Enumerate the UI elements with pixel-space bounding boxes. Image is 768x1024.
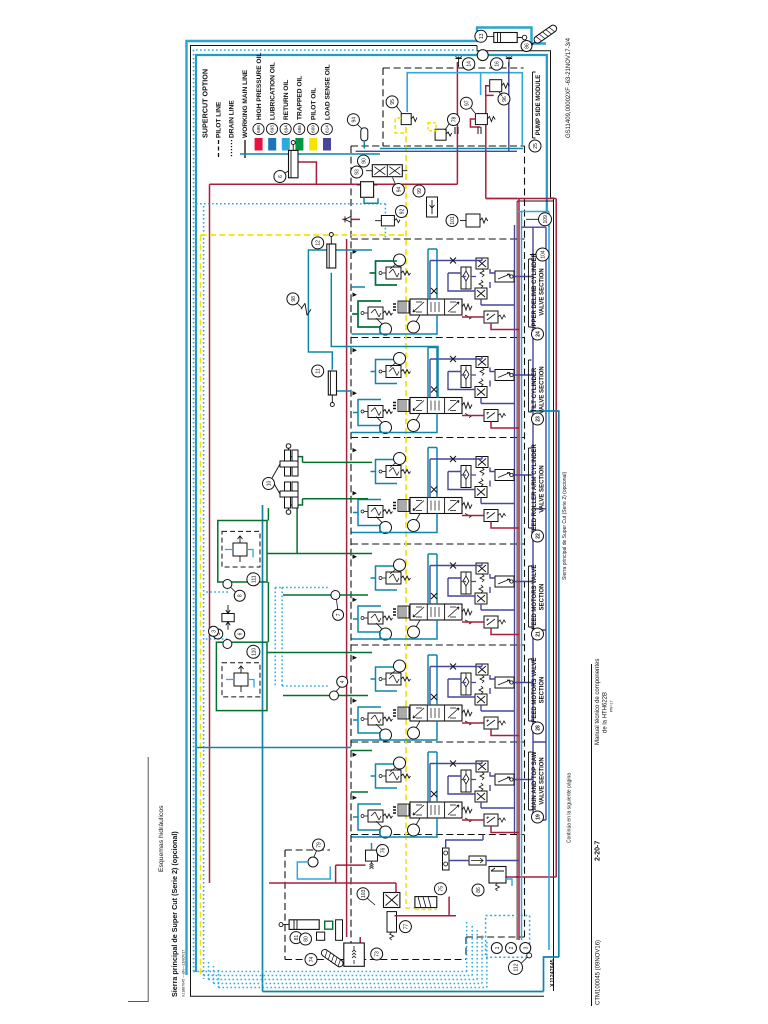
svg-text:86: 86 <box>525 43 531 49</box>
red cluster wiring <box>269 865 500 943</box>
svg-text:DRAIN LINE: DRAIN LINE <box>229 100 236 138</box>
svg-text:77: 77 <box>403 924 409 930</box>
svg-text:104: 104 <box>541 250 547 259</box>
svg-text:96: 96 <box>502 96 508 102</box>
svg-text:92: 92 <box>400 209 406 215</box>
svg-text:CTM100045 (09NOV16): CTM100045 (09NOV16) <box>596 940 602 1005</box>
cyan dotted pair mid-left <box>204 588 330 687</box>
svg-text:2-20-7: 2-20-7 <box>595 841 602 861</box>
svg-text:80: 80 <box>304 936 310 942</box>
navy label frame <box>522 227 547 820</box>
svg-text:VALVE SECTION: VALVE SECTION <box>540 366 546 413</box>
svg-text:XJ1247645: XJ1247645 <box>550 959 556 987</box>
junction circle <box>477 50 488 61</box>
saw bar diagonal <box>528 24 558 48</box>
svg-text:PILOT OIL: PILOT OIL <box>311 88 318 120</box>
bank left red vertical <box>346 239 348 937</box>
svg-text:SECTION: SECTION <box>540 584 546 611</box>
svg-text:3: 3 <box>212 630 218 633</box>
svg-text:103: 103 <box>361 889 367 898</box>
svg-text:11: 11 <box>316 368 322 373</box>
saw bar bottom <box>320 948 344 968</box>
svg-text:PUMP SIDE MODULE: PUMP SIDE MODULE <box>536 75 542 136</box>
yellow dashed horizontal + long vertical <box>201 234 407 236</box>
svg-text:7: 7 <box>336 613 342 616</box>
svg-text:VALVE SECTION: VALVE SECTION <box>540 465 546 512</box>
cylinder 12 <box>327 244 336 268</box>
valve 97 <box>475 114 487 125</box>
svg-text:76: 76 <box>381 848 387 854</box>
svg-text:86: 86 <box>476 887 482 893</box>
node circles on green lines <box>331 591 340 600</box>
cyan dotted horizontal upper <box>196 204 385 239</box>
svg-text:95: 95 <box>390 99 396 105</box>
section S6 main and top saw <box>352 752 534 838</box>
green entries S3-S6 and sub-box links <box>267 457 372 792</box>
svg-text:6: 6 <box>238 632 244 635</box>
section S3 feed roller arm cylinder <box>352 448 534 534</box>
svg-text:2: 2 <box>509 946 515 949</box>
svg-text:PILOT LINE: PILOT LINE <box>216 101 223 138</box>
accumulator 94 <box>361 128 368 141</box>
cylinder 6 (below legend) <box>240 153 380 155</box>
sub-box 110 <box>216 642 267 710</box>
svg-text:110: 110 <box>251 648 257 656</box>
legend circles <box>253 123 333 134</box>
svg-text:FEED ROLLER ARM CYLINDER: FEED ROLLER ARM CYLINDER <box>532 443 538 533</box>
node 8 + cyan loop <box>308 857 318 867</box>
outer black frame <box>191 46 545 997</box>
svg-text:de la HTH622B: de la HTH622B <box>603 692 609 733</box>
svg-text:74: 74 <box>309 957 315 963</box>
svg-text:TILT CYLINDER: TILT CYLINDER <box>532 367 538 412</box>
svg-text:19: 19 <box>536 814 542 820</box>
svg-text:12: 12 <box>316 240 322 246</box>
bottom dotted band <box>194 920 487 988</box>
svg-text:101: 101 <box>450 216 456 225</box>
svg-text:SECTION: SECTION <box>540 677 546 704</box>
svg-text:94: 94 <box>351 117 357 123</box>
S1 green overlays <box>352 261 397 327</box>
svg-text:8: 8 <box>238 594 244 597</box>
X valve 77 <box>384 893 400 908</box>
svg-text:PN=17: PN=17 <box>610 700 614 712</box>
module cyan loop <box>407 73 522 146</box>
svg-text:Sierra principal de Super Cut: Sierra principal de Super Cut (Serie 2) … <box>170 831 179 997</box>
svg-text:93: 93 <box>355 169 361 175</box>
svg-text:14: 14 <box>467 61 473 67</box>
navy flow box + valve <box>443 848 450 870</box>
svg-text:LUBRICATION OIL: LUBRICATION OIL <box>270 62 277 120</box>
svg-text:112: 112 <box>514 963 520 971</box>
valve bank top/bottom and separators <box>351 239 525 835</box>
svg-text:XJ1887045 —UN—21NOV17: XJ1887045 —UN—21NOV17 <box>182 950 186 997</box>
orifice block <box>222 614 234 622</box>
legend line samples <box>218 140 220 158</box>
section S1 upper delimb cylinder <box>352 249 534 335</box>
svg-text:98: 98 <box>291 296 297 302</box>
left vertical bus <box>203 206 205 979</box>
inner cyan border <box>196 55 547 972</box>
motor 75 <box>415 897 437 908</box>
svg-text:HIGH PRESSURE OIL: HIGH PRESSURE OIL <box>256 53 263 120</box>
svg-text:24: 24 <box>536 331 542 337</box>
svg-text:Sierra principal de Super Cut: Sierra principal de Super Cut (Serie 2) … <box>562 472 568 580</box>
svg-text:LOAD SENSE OIL: LOAD SENSE OIL <box>325 64 332 120</box>
svg-text:23: 23 <box>536 416 542 422</box>
svg-text:1: 1 <box>495 946 501 949</box>
svg-text:FEED MOTORS VALVE: FEED MOTORS VALVE <box>532 565 538 630</box>
teal horizontal mid-left <box>197 747 351 749</box>
svg-text:78: 78 <box>452 117 458 123</box>
svg-text:UPPER DELIMB CYLINDER: UPPER DELIMB CYLINDER <box>532 252 538 330</box>
valve 76 <box>366 850 378 861</box>
section labels <box>529 252 546 823</box>
svg-text:6: 6 <box>278 175 284 178</box>
box 73 <box>344 943 365 966</box>
svg-text:698: 698 <box>256 125 261 133</box>
svg-text:111: 111 <box>251 575 257 583</box>
svg-text:25: 25 <box>533 143 539 149</box>
svg-text:22: 22 <box>536 533 542 539</box>
dotted cyan border line <box>194 50 478 972</box>
valve 101 (yellow pilot) <box>401 114 411 125</box>
solenoid 80 <box>317 932 325 940</box>
svg-text:97: 97 <box>464 100 470 106</box>
svg-text:614: 614 <box>325 125 330 133</box>
svg-text:SUPERCUT OPTION: SUPERCUT OPTION <box>201 69 210 138</box>
svg-text:79: 79 <box>317 842 323 848</box>
svg-text:TRAPPED OIL: TRAPPED OIL <box>297 76 304 120</box>
svg-text:90: 90 <box>362 158 368 164</box>
valve 78 with yellow box <box>435 129 446 140</box>
svg-text:609: 609 <box>311 125 316 133</box>
svg-text:4: 4 <box>340 680 346 683</box>
legend squares <box>255 138 263 151</box>
svg-text:WORKING MAIN LINE: WORKING MAIN LINE <box>242 69 249 138</box>
svg-text:MAIN AND TOP SAW: MAIN AND TOP SAW <box>532 751 538 810</box>
teal long right loop + bottom <box>263 411 559 992</box>
section S5 feed motors <box>352 655 534 741</box>
green bits <box>325 921 333 929</box>
big supercut dashed boundary <box>285 146 525 960</box>
section S4 feed motors <box>352 554 534 640</box>
left cylinder 81 <box>289 920 319 930</box>
roller 10 <box>272 444 298 515</box>
pump side module box <box>351 68 524 146</box>
footer rule + texts <box>591 664 593 1006</box>
svg-text:Esquemas hidráulicos: Esquemas hidráulicos <box>158 805 165 872</box>
cylinder 11 <box>328 371 336 395</box>
teal entries S1/S2 + cylinders 11/12 <box>308 250 438 398</box>
svg-text:28: 28 <box>536 725 542 731</box>
svg-text:73: 73 <box>375 951 381 957</box>
svg-text:694: 694 <box>283 125 288 133</box>
port double bars <box>455 127 481 134</box>
circles 109 / 104 right <box>539 213 552 226</box>
svg-text:RETURN OIL: RETURN OIL <box>283 80 290 120</box>
vertical valve in box <box>427 197 438 217</box>
dotted cyan box bottom right + circles <box>486 916 530 958</box>
valve 92 <box>381 216 394 226</box>
sub-box 111 <box>218 521 267 583</box>
solenoid double block <box>372 165 402 177</box>
line break symbol + circle <box>301 303 311 315</box>
valve 93 <box>361 182 374 198</box>
svg-text:13: 13 <box>479 33 485 39</box>
PUMP SIDE MODULE label <box>533 72 536 138</box>
narrow box <box>336 920 343 941</box>
relief valve <box>466 214 480 227</box>
svg-text:99: 99 <box>417 188 423 194</box>
svg-text:3: 3 <box>523 946 529 949</box>
bank right bundle <box>514 225 516 834</box>
svg-text:94: 94 <box>396 187 402 193</box>
svg-text:Continúa en la siguiente págin: Continúa en la siguiente página <box>567 773 573 843</box>
svg-text:FEED MOTORS VALVE: FEED MOTORS VALVE <box>532 658 538 723</box>
red check left <box>342 218 360 220</box>
svg-text:GS11409,00002XF -63-21NOV17-3/: GS11409,00002XF -63-21NOV17-3/4 <box>566 37 572 138</box>
svg-text:VALVE SECTION: VALVE SECTION <box>540 757 546 804</box>
svg-text:VALVE SECTION: VALVE SECTION <box>540 268 546 315</box>
navy vertical + below-module lines <box>356 62 517 151</box>
svg-text:693: 693 <box>270 125 275 133</box>
svg-text:Manual técnico de componentes: Manual técnico de componentes <box>595 659 601 745</box>
svg-text:16: 16 <box>495 61 501 67</box>
test ports 14/16 <box>455 57 461 68</box>
valve 96 <box>490 80 502 92</box>
section S2 tilt cylinder <box>352 348 534 434</box>
svg-text:21: 21 <box>536 631 542 637</box>
svg-text:10: 10 <box>267 481 273 487</box>
svg-text:686: 686 <box>297 125 302 133</box>
left bracket <box>128 757 148 1002</box>
outer cyan border with top-right protrusion <box>187 28 547 976</box>
svg-text:109: 109 <box>543 215 549 224</box>
svg-text:75: 75 <box>439 886 445 892</box>
red lines top <box>210 62 458 184</box>
valve 86 right <box>489 867 506 884</box>
